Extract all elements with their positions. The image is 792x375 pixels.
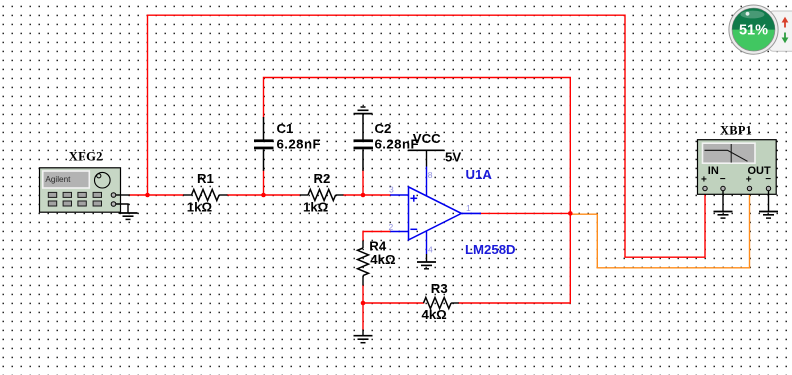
JUNCTION DOTS	[145, 193, 572, 306]
svg-text:2: 2	[389, 222, 394, 232]
svg-text:5V: 5V	[445, 150, 461, 165]
ground (XFG2)	[119, 213, 138, 219]
junction E (R4/R3/ground node)	[361, 301, 366, 306]
svg-text:XFG2: XFG2	[69, 149, 103, 163]
wire: junction E to R3 left	[363, 302, 424, 304]
svg-text:LM258D: LM258D	[465, 242, 516, 257]
zoom badge 51%	[729, 5, 778, 54]
wire: R2 right to node C (C2 junction) to op-amp pin 3	[344, 194, 391, 196]
function generator XFG2	[40, 168, 121, 212]
ground (op-amp pin 4)	[417, 254, 436, 269]
wire: XBP1 IN- to ground	[722, 191, 724, 212]
wire: orange output to Bode plotter OUT+	[571, 191, 750, 268]
capacitor C2	[354, 114, 374, 171]
svg-text:1: 1	[466, 203, 471, 213]
ground (below R4 node E)	[354, 330, 373, 343]
zoom control tab	[769, 11, 792, 51]
ground (XBP1 OUT-)	[759, 212, 778, 219]
resistor R1	[183, 190, 227, 201]
junction B (R1/R2/C1 node)	[261, 193, 266, 198]
ground (XBP1 IN-)	[714, 212, 733, 219]
svg-text:−: −	[765, 174, 771, 185]
wire: XBP1 OUT- to ground	[768, 191, 770, 212]
wire: outer loop from junction A up over to Bode plotter IN+	[148, 15, 706, 257]
pin 2 stub	[390, 231, 408, 233]
junction C (R2/C2/pin3 node)	[361, 193, 366, 198]
Bode plotter XBP1	[698, 140, 777, 195]
pin 3 stub	[390, 194, 408, 196]
svg-text:+: +	[701, 174, 707, 185]
svg-text:R3: R3	[431, 281, 448, 296]
svg-text:IN: IN	[708, 165, 719, 177]
wire: inner feedback loop C1 top to output junction D	[264, 78, 571, 214]
wire: XFG2 ground pin	[116, 204, 128, 213]
capacitor C1	[254, 117, 274, 171]
svg-text:R2: R2	[314, 171, 331, 186]
wire: XFG2 output to R1 (net with junction A)	[130, 194, 184, 196]
resistor R2	[300, 190, 344, 201]
wire: C2 bottom to node C	[362, 171, 364, 196]
resistor R3	[424, 298, 459, 309]
svg-text:+: +	[746, 174, 752, 185]
power VCC symbol	[408, 150, 444, 166]
wire: XFG2 signal pin stub	[116, 194, 130, 196]
wire: junction E down to ground	[362, 303, 364, 330]
wire: op-amp pin 2 to R4 top corner	[363, 232, 390, 241]
svg-text:U1A: U1A	[466, 167, 493, 182]
pin 1 stub	[461, 212, 481, 214]
wire: R1 right to node B (C1 junction) to R2 left	[228, 194, 300, 196]
svg-text:VCC: VCC	[413, 131, 441, 146]
svg-text:4: 4	[428, 244, 433, 254]
wire: C1 bottom to node B	[263, 171, 265, 196]
svg-text:1kΩ: 1kΩ	[187, 200, 213, 215]
resistor R4	[358, 241, 369, 286]
ground (above C2, flipped)	[354, 107, 373, 114]
junction A (XFG2 output node)	[145, 193, 150, 198]
wire: R4 bottom to junction E	[362, 286, 364, 304]
pin 8 stub	[426, 167, 428, 197]
svg-text:R1: R1	[197, 171, 214, 186]
svg-text:8: 8	[428, 170, 433, 180]
svg-text:4kΩ: 4kΩ	[370, 252, 396, 267]
svg-text:51%: 51%	[739, 23, 768, 39]
svg-text:Agilent: Agilent	[45, 175, 71, 184]
svg-text:XBP1: XBP1	[720, 124, 752, 138]
svg-text:C2: C2	[375, 121, 392, 136]
wire: op-amp output to junction D	[481, 212, 570, 214]
svg-text:6.28nF: 6.28nF	[277, 136, 321, 151]
svg-text:3: 3	[389, 184, 394, 194]
svg-text:1kΩ: 1kΩ	[303, 200, 329, 215]
svg-text:−: −	[720, 174, 726, 185]
junction D (output node)	[568, 211, 573, 216]
op-amp U1A	[409, 187, 462, 240]
svg-text:4kΩ: 4kΩ	[422, 307, 448, 322]
pin 4 stub	[426, 231, 428, 254]
wire: R3 right up to output junction D	[459, 213, 571, 303]
svg-text:C1: C1	[277, 121, 294, 136]
